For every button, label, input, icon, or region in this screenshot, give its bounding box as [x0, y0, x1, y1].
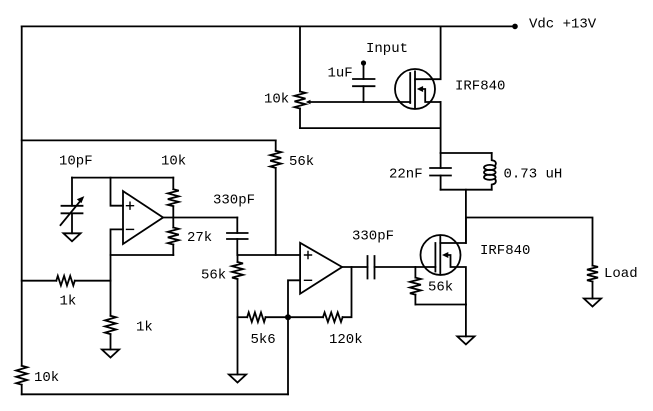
wire tank bottom to drain node vertical — [465, 190, 467, 243]
ground (under Load) — [584, 299, 601, 307]
U1 plus sign — [127, 202, 134, 209]
potentiometer R 10k top lead — [299, 26, 301, 91]
op-amp U1 — [123, 191, 163, 244]
capacitor C 330pF plates — [227, 233, 248, 239]
svg-text:22nF: 22nF — [389, 167, 423, 183]
svg-text:10pF: 10pF — [59, 154, 93, 170]
wire tank bottom rail — [441, 189, 492, 191]
resistor R 27k — [172, 218, 174, 228]
ground (Q2 source) — [457, 336, 474, 344]
wire op-amp U1 top wire (10pF to 10k) — [72, 177, 173, 179]
Q1 source path — [423, 89, 441, 102]
wire U1 non-inverting input tap — [111, 178, 124, 206]
resistor R 1k (horizontal) — [56, 276, 75, 286]
svg-text:56k: 56k — [428, 280, 453, 296]
svg-text:1k: 1k — [60, 294, 77, 310]
wire 5k6 right lead to node — [266, 316, 288, 318]
wire 1uF bottom lead — [363, 86, 365, 102]
svg-text:IRF840: IRF840 — [455, 78, 505, 94]
wire 5k6 left lead — [238, 316, 248, 318]
wire to Q2 gate — [375, 266, 436, 268]
capacitor C 22nF top lead — [440, 153, 442, 168]
wire U1 inverting input branch — [111, 229, 124, 315]
capacitor C 10pF adjust arrow — [61, 200, 82, 225]
Q1 channel bar — [414, 71, 416, 108]
wire pot-source rail — [300, 127, 441, 129]
Q2 channel bar — [439, 236, 441, 273]
wire junction wire to U2 plus input — [238, 254, 301, 256]
svg-text:27k: 27k — [187, 230, 212, 246]
svg-text:Input: Input — [366, 41, 408, 57]
wire input dot to 1uF — [363, 63, 365, 79]
capacitor C 330pF (U2 output) plates — [368, 256, 375, 279]
op-amp U2 — [300, 243, 342, 294]
node Vdc terminal dot — [512, 24, 518, 30]
resistor R 5k6 — [247, 312, 265, 322]
ground (under second 56k) — [229, 375, 246, 383]
wire top supply rail — [22, 25, 515, 27]
svg-text:1k: 1k — [136, 320, 153, 336]
Q2 source path — [448, 255, 466, 305]
svg-text:330pF: 330pF — [213, 193, 255, 209]
svg-text:56k: 56k — [289, 154, 314, 170]
Q2 drain tap — [440, 218, 466, 244]
ground (under vertical 1k) — [102, 350, 119, 358]
capacitor C 10pF plates — [62, 206, 83, 214]
wire U1 output — [163, 217, 237, 219]
svg-text:5k6: 5k6 — [251, 332, 276, 348]
svg-text:0.73 uH: 0.73 uH — [504, 167, 563, 183]
potentiometer R 10k body — [295, 92, 306, 109]
resistor R 120k — [323, 312, 343, 322]
wire load bottom lead — [592, 282, 594, 299]
resistor R 1k (vertical) — [105, 316, 116, 334]
wire drain node to load — [466, 218, 593, 266]
capacitor C 1uF plates — [353, 79, 375, 86]
potentiometer wiper arrow — [306, 100, 311, 105]
svg-text:1uF: 1uF — [328, 66, 353, 82]
wire node up to U2 inverting input — [288, 280, 300, 317]
svg-text:Vdc +13V: Vdc +13V — [529, 16, 597, 32]
svg-text:10k: 10k — [34, 370, 59, 386]
wire U1 feedback bottom wire — [111, 254, 174, 256]
Q1 body arrow — [417, 86, 423, 92]
wire bottom rail — [22, 393, 288, 395]
wire Q2 source rail — [415, 304, 466, 306]
wire left vertical bus (below 10k) — [21, 385, 23, 395]
inductor L 0.73uH — [492, 153, 496, 166]
svg-text:Load: Load — [604, 266, 638, 282]
wire Q2 ground tap — [465, 305, 467, 337]
U2 plus sign — [305, 252, 312, 259]
ground (under 10pF) — [63, 233, 80, 241]
transistor Q2 IRF840 circle — [421, 235, 461, 275]
wire 56k lower lead down to junction wire — [275, 168, 277, 255]
wire U2 output — [342, 266, 367, 268]
wire 330pF bottom lead — [236, 239, 238, 255]
Q1 drain tap — [415, 26, 441, 79]
wire bottom rail riser to feedback node — [287, 317, 289, 394]
wire from Q1 source/pot rail down to tank — [440, 102, 442, 153]
capacitor C 330pF (U1 output): top lead — [236, 218, 238, 234]
wire 1k horizontal left lead — [22, 280, 57, 282]
resistor R 56k (Q2 gate) — [414, 267, 416, 278]
Q2 body arrow — [442, 252, 448, 258]
svg-text:10k: 10k — [161, 154, 186, 170]
wire 120k left lead — [288, 316, 323, 318]
wire tank top rail — [441, 152, 492, 154]
resistor R 56k (second, to ground) — [237, 255, 239, 262]
wire 1k horizontal right lead — [75, 280, 111, 282]
U1 minus sign — [127, 228, 134, 230]
wire left vertical bus (top) — [21, 26, 23, 365]
svg-text:330pF: 330pF — [352, 229, 394, 245]
transistor Q1 IRF840 circle — [395, 69, 435, 109]
resistor R 10k (bottom left) — [16, 366, 27, 385]
wire 22nF bottom lead — [440, 176, 442, 190]
resistor R 56k (upper) — [270, 151, 281, 168]
Q1 gate bar — [409, 73, 411, 103]
capacitor C 10pF variable: top lead — [71, 178, 73, 206]
potentiometer R 10k bottom lead — [299, 109, 301, 129]
wire second horizontal rail — [22, 139, 276, 141]
svg-text:120k: 120k — [329, 332, 363, 348]
Q2 gate bar — [434, 243, 436, 272]
svg-text:10k: 10k — [264, 92, 289, 108]
svg-text:IRF840: IRF840 — [480, 243, 530, 259]
resistor R 10k (U1 feedback top) — [172, 178, 174, 190]
wire Q1 gate lead — [310, 101, 410, 103]
svg-text:56k: 56k — [201, 268, 226, 284]
wire 56k top lead — [275, 140, 277, 150]
resistor R Load — [587, 266, 598, 282]
U2 minus sign — [305, 279, 312, 281]
wire 120k right lead and riser to U2 output — [343, 267, 352, 317]
node Input terminal dot — [361, 60, 366, 65]
node feedback junction dot — [285, 314, 291, 320]
capacitor C 22nF plates — [430, 168, 451, 176]
wire 1k vertical bottom lead — [110, 334, 112, 349]
wire 10pF bottom lead — [71, 213, 73, 233]
